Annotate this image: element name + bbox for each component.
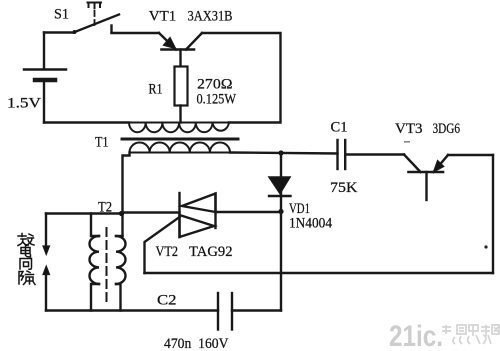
svg-text:1N4004: 1N4004 [289, 216, 333, 232]
svg-text:470n 160V: 470n 160V [164, 336, 229, 351]
wire VT3 emitter to right edge [448, 154, 493, 156]
watermark 21ic [389, 320, 499, 351]
svg-text:VT3: VT3 [395, 121, 423, 137]
wire node C down through VD1 to C2 right [280, 153, 282, 311]
wire C1 to VT3 [345, 153, 404, 155]
switch S1 [73, 3, 120, 35]
label fang dian jian xi (vertical Chinese) [18, 234, 35, 285]
wire battery top to switch [44, 31, 74, 33]
wire T1 secondary left down to T2 [123, 153, 130, 237]
svg-text:0.125W: 0.125W [197, 92, 237, 108]
speck [484, 245, 487, 248]
wire C2 right to vertical [232, 309, 281, 311]
wire bottom run right to left [145, 272, 494, 274]
svg-text:C1: C1 [331, 120, 348, 136]
svg-text:R1: R1 [149, 82, 163, 98]
resistor R1 [175, 67, 188, 106]
capacitor C2 [218, 293, 232, 330]
wire T2 bottom to C2 [46, 309, 218, 311]
wire node A to triac VT2 [123, 211, 180, 213]
svg-text:VT1: VT1 [149, 9, 177, 25]
svg-text:T1: T1 [95, 135, 109, 151]
svg-text:T2: T2 [98, 200, 112, 216]
wire T2 top left [46, 212, 123, 214]
transformer T2 [89, 214, 125, 311]
svg-text:TAG92: TAG92 [189, 244, 233, 260]
wire battery negative to T1 primary [44, 121, 129, 123]
svg-text:C2: C2 [157, 293, 177, 309]
speck [404, 141, 410, 143]
node A [119, 211, 124, 216]
svg-text:75K: 75K [330, 180, 358, 196]
wire T1 secondary right to node C [230, 153, 338, 154]
discharge gap [43, 214, 50, 311]
wire triac VT2 to node B [216, 211, 282, 213]
diode VD1 [269, 177, 291, 196]
wire right edge down [492, 155, 494, 273]
svg-text:VT2: VT2 [156, 244, 179, 260]
svg-text:S1: S1 [54, 7, 69, 23]
node B [278, 209, 283, 214]
battery 1.5V [24, 33, 66, 123]
svg-text:1.5V: 1.5V [7, 96, 42, 112]
capacitor C1 [338, 140, 346, 169]
wire VT1 collector to T1 primary right [202, 33, 281, 123]
transformer T1 [122, 123, 238, 153]
wire VT2 gate [145, 217, 180, 273]
node C [278, 150, 283, 155]
triac VT2 [180, 193, 216, 237]
transistor VT1 [159, 33, 202, 67]
wire R1 to T1 center tap [179, 106, 181, 123]
svg-text:21ic.: 21ic. [389, 320, 443, 351]
svg-text:3DG6: 3DG6 [433, 121, 461, 137]
transistor VT3 [404, 155, 448, 201]
svg-text:3AX31B: 3AX31B [188, 9, 233, 25]
svg-text:270Ω: 270Ω [197, 77, 233, 93]
wire switch to VT1 emitter [112, 32, 160, 34]
